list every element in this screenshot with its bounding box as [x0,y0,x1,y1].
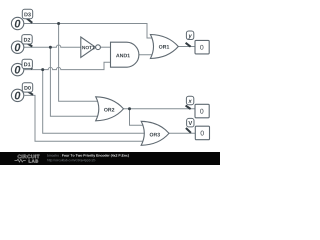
node junction D1 [41,68,44,71]
node junction D2 [49,46,52,49]
output indicator x [186,96,210,118]
wire D1 branch to OR3 middle [43,70,149,134]
wire D2 row to NOT1 (with hop over D3 vertical) [24,45,83,47]
wire OR2 output to x box [124,108,196,110]
input D3 [11,9,32,29]
wire D3 branch to OR2 upper [59,24,101,102]
input D1 [11,59,32,76]
output indicator y [186,31,210,54]
footer bar [0,152,220,165]
wire D2 branch to OR2 lower [50,47,101,116]
or-gate OR1 [150,35,178,59]
node junction OR2 output [128,107,131,110]
node junction D3 [57,22,60,25]
input D2 [11,35,32,54]
wire NOT1 output to AND1 upper [101,46,111,48]
or-gate OR3 (3-input) [141,121,169,145]
output indicator V [186,118,210,139]
wire OR2 junction branch to OR3 upper [130,109,147,126]
footer text [47,154,60,156]
wire AND1 output to OR1 lower [139,54,156,56]
or-gate OR2 [96,97,124,121]
wire D1 row to AND1 lower (hops over D2,D3 verticals) [24,62,112,69]
wire OR3 output to V box [169,132,195,134]
inverter NOT1 [81,37,101,57]
input D0 [11,83,33,102]
wire D3 row [24,24,156,39]
wire D0 stub and branch to OR3 lower [24,95,146,141]
footer CircuitLab logo [15,155,40,163]
and-gate AND1 [111,42,139,67]
wire OR1 output to y box [178,46,195,48]
